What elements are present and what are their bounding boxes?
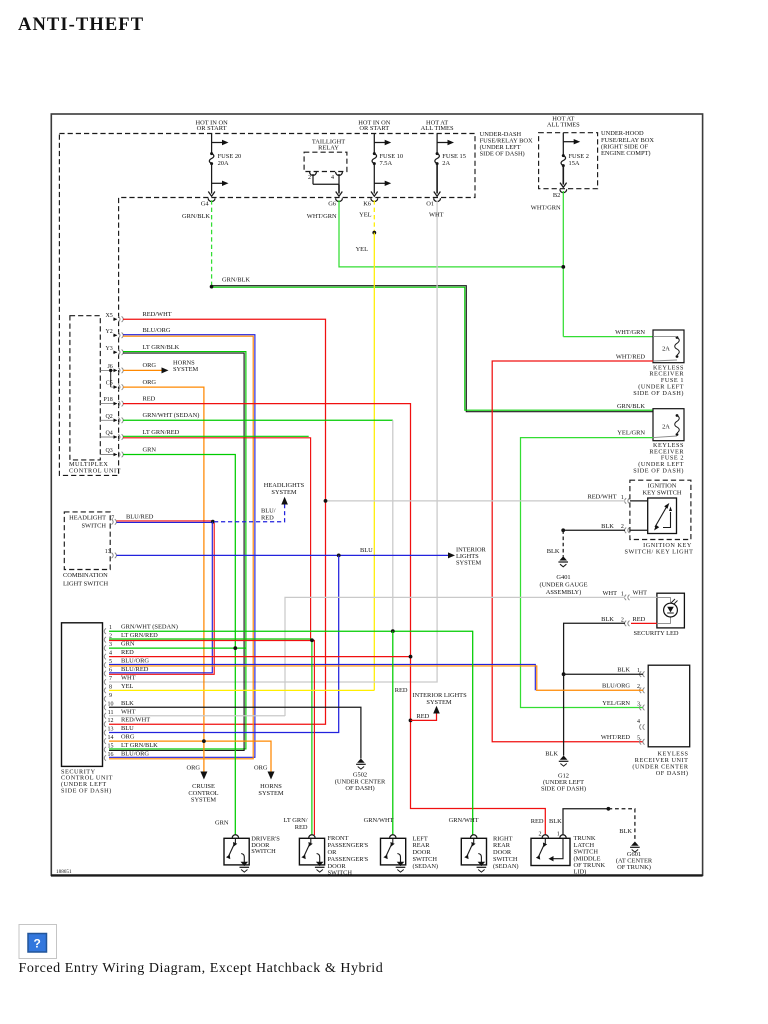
pin 13 (105, 549, 117, 558)
svg-text:?: ? (34, 937, 41, 951)
svg-text:BLU: BLU (121, 725, 134, 732)
svg-text:Q2: Q2 (105, 414, 112, 420)
svg-text:RED: RED (395, 687, 408, 694)
row labels (121, 624, 178, 758)
svg-text:LT GRN/RED: LT GRN/RED (143, 429, 180, 436)
thick bottom border (51, 874, 703, 876)
svg-text:WHT: WHT (121, 675, 136, 682)
svg-text:RED: RED (261, 515, 274, 522)
svg-text:SIDE OF DASH): SIDE OF DASH) (480, 151, 525, 158)
svg-text:SYSTEM: SYSTEM (258, 790, 284, 797)
node row2 junction (310, 638, 314, 642)
svg-text:BLU/RED: BLU/RED (126, 513, 154, 520)
svg-text:OR START: OR START (197, 125, 227, 132)
svg-text:1: 1 (621, 591, 624, 597)
svg-text:4: 4 (331, 175, 334, 181)
pin 1 LED (625, 595, 630, 601)
svg-text:3: 3 (637, 701, 640, 707)
svg-text:YEL/GRN: YEL/GRN (602, 700, 630, 707)
svg-text:GRN: GRN (143, 446, 157, 453)
ignition key switch (dashed box) (630, 480, 691, 539)
svg-text:OF DASH): OF DASH) (656, 770, 689, 777)
node row3 / Q3 junction (233, 646, 237, 650)
pin 2 ignition (625, 528, 630, 534)
svg-text:13: 13 (108, 727, 114, 733)
svg-text:WHT: WHT (602, 590, 617, 597)
svg-text:10: 10 (108, 701, 114, 707)
headlight switch (dashed box) (64, 512, 110, 570)
wire ORG from C5 to cruise control arrow (123, 387, 204, 772)
wire row 3 GRN (109, 647, 246, 649)
wire WHT/GRN from G6 (339, 200, 563, 267)
svg-text:LID): LID) (574, 869, 587, 876)
wire BLK from trunk latch pin 1 to G601 (563, 809, 608, 835)
wire WHT/RED from fuse 1 to keyless unit pin 5 (492, 361, 653, 742)
svg-text:WHT/RED: WHT/RED (616, 353, 645, 360)
node row4 / P18 junction (409, 655, 413, 659)
wire WHT/GRN from B2 (562, 191, 564, 337)
svg-text:7: 7 (109, 676, 112, 682)
svg-text:WHT: WHT (429, 212, 444, 219)
svg-text:(SEDAN): (SEDAN) (413, 863, 439, 870)
ignition switch symbol (655, 507, 667, 527)
svg-text:LT GRN/: LT GRN/ (284, 817, 308, 824)
wire RED from P18 down to trunk latch pin 2 (123, 404, 545, 835)
svg-text:(SEDAN): (SEDAN) (493, 863, 519, 870)
wire BLK from ignition pin 2 (563, 529, 625, 531)
svg-text:6: 6 (109, 668, 112, 674)
svg-text:9: 9 (109, 693, 112, 699)
svg-text:BLU/RED: BLU/RED (121, 666, 149, 673)
svg-text:RED/WHT: RED/WHT (587, 494, 616, 501)
pin 1 ignition (625, 498, 630, 504)
svg-text:BLU/ORG: BLU/ORG (602, 683, 630, 690)
wire GRN/WHT from Q2 (green then grey) (123, 419, 393, 421)
svg-text:7.5A: 7.5A (380, 160, 393, 167)
svg-text:OR START: OR START (359, 125, 389, 132)
wire LT GRN/RED pair from Q4 to front passenger door switch (123, 435, 309, 437)
svg-text:2: 2 (637, 684, 640, 690)
wire GRN/BLK pair to keyless fuse 2 (212, 286, 653, 412)
svg-text:ALL TIMES: ALL TIMES (421, 125, 454, 132)
help icon box (19, 925, 57, 959)
svg-text:12: 12 (108, 718, 114, 724)
svg-text:2: 2 (308, 175, 311, 181)
node row14 / C5 junction (202, 739, 206, 743)
ground G502 (356, 759, 366, 770)
driver's door switch (224, 835, 249, 872)
wire ORG from J6 to horns system arrow (123, 369, 162, 371)
svg-text:Forced Entry Wiring Diagram, E: Forced Entry Wiring Diagram, Except Hatc… (19, 961, 384, 976)
wire BLU from pin 13 to interior lights system (117, 554, 449, 556)
svg-text:GRN/BLK: GRN/BLK (617, 403, 645, 410)
wire LT GRN/BLK pair from Y3 to row 15 (109, 352, 246, 749)
wire BLU/RED pair down to row 6 (109, 522, 212, 673)
svg-text:YEL: YEL (121, 683, 134, 690)
svg-text:LT GRN/BLK: LT GRN/BLK (121, 742, 158, 749)
pin Q3 (100, 448, 123, 457)
wire RED spur to interior lights system (411, 713, 437, 720)
svg-text:WHT/GRN: WHT/GRN (307, 213, 337, 220)
node WHT/GRN junction (561, 265, 565, 269)
svg-text:2: 2 (621, 524, 624, 530)
svg-text:RELAY: RELAY (318, 145, 339, 152)
svg-text:SIDE OF DASH): SIDE OF DASH) (633, 468, 684, 475)
svg-text:BLK: BLK (601, 616, 614, 623)
pin 4 keyless unit (640, 724, 645, 730)
multiplex control unit (dashed box) (70, 316, 100, 460)
svg-text:SYSTEM: SYSTEM (173, 366, 199, 373)
svg-text:BLU/ORG: BLU/ORG (121, 751, 149, 758)
svg-text:YEL: YEL (356, 246, 369, 253)
svg-text:ASSEMBLY): ASSEMBLY) (546, 589, 582, 596)
svg-text:OF DASH): OF DASH) (345, 785, 374, 792)
svg-text:O1: O1 (426, 201, 434, 208)
svg-text:WHT: WHT (121, 708, 136, 715)
svg-text:(UNDER GAUGE: (UNDER GAUGE (539, 582, 587, 589)
node BLU junction (337, 554, 341, 558)
wire WHT from O1 down and left to row 7 (109, 200, 437, 682)
svg-text:ORG: ORG (143, 362, 157, 369)
svg-text:INTERIOR LIGHTS: INTERIOR LIGHTS (413, 692, 468, 699)
svg-text:SIDE OF DASH): SIDE OF DASH) (61, 788, 112, 795)
left rear door switch (381, 835, 406, 872)
svg-text:ALL TIMES: ALL TIMES (547, 122, 580, 129)
svg-text:C5: C5 (106, 381, 113, 387)
svg-text:IGNITION: IGNITION (648, 482, 677, 489)
row numbers (108, 625, 114, 758)
svg-text:RED/WHT: RED/WHT (121, 717, 150, 724)
wire RED/WHT (wht) from X5 riser to ignition pin 1 (326, 500, 626, 502)
pin Y2 (105, 329, 123, 338)
svg-text:SWITCH/ KEY LIGHT: SWITCH/ KEY LIGHT (625, 548, 694, 555)
svg-text:COMBINATION: COMBINATION (63, 572, 108, 579)
svg-text:BLK: BLK (601, 523, 614, 530)
node YEL junction (372, 231, 376, 235)
svg-text:SECURITY LED: SECURITY LED (633, 630, 678, 637)
svg-text:BLU/ORG: BLU/ORG (121, 658, 149, 665)
node G4 junction (210, 285, 214, 289)
wire GRN/WHT continuation below junction (392, 631, 394, 835)
keyless receiver fuse 1 (653, 330, 684, 363)
svg-text:4: 4 (109, 651, 112, 657)
svg-text:1: 1 (637, 668, 640, 674)
ground G12 (559, 756, 569, 767)
svg-text:BLK: BLK (545, 751, 558, 758)
svg-text:P18: P18 (103, 397, 112, 403)
wire row 14 ORG to horns system arrow (109, 741, 271, 772)
wire BLK from G12 riser to keyless pin 1 (564, 673, 643, 675)
outer diagram border (51, 114, 702, 875)
pin 7 (111, 515, 116, 524)
keyless receiver fuse 2 (653, 409, 684, 441)
svg-text:BLU: BLU (360, 547, 373, 554)
svg-text:SWITCH: SWITCH (82, 522, 107, 529)
svg-text:BLK: BLK (549, 818, 562, 825)
svg-text:2: 2 (621, 617, 624, 623)
pin X5 (105, 313, 123, 322)
wire GRN/BLK dashed from G4 (211, 200, 213, 286)
svg-text:SYSTEM: SYSTEM (426, 699, 452, 706)
under-hood fuse/relay box (dashed) (539, 133, 598, 189)
wire GRN from Q3 down to driver's door switch (123, 455, 235, 836)
front passenger's door switch (299, 835, 324, 872)
svg-text:GRN/BLK: GRN/BLK (182, 213, 210, 220)
svg-text:Y3: Y3 (105, 346, 112, 352)
pin P18 (100, 397, 123, 406)
svg-text:SIDE OF DASH): SIDE OF DASH) (633, 390, 684, 397)
svg-text:13: 13 (105, 549, 111, 555)
svg-text:OF TRUNK): OF TRUNK) (617, 864, 651, 871)
svg-text:KEY SWITCH: KEY SWITCH (643, 489, 682, 496)
wire RED stub into LED (631, 622, 657, 624)
pin C5 (106, 381, 124, 390)
svg-text:GRN: GRN (121, 641, 135, 648)
wire row 10 BLK to ground G502 (109, 707, 361, 758)
svg-text:ORG: ORG (187, 765, 201, 772)
node BLU/RED junction (211, 520, 215, 524)
svg-text:YEL: YEL (359, 212, 372, 219)
svg-text:RED/WHT: RED/WHT (143, 311, 172, 318)
svg-text:GRN/WHT: GRN/WHT (364, 817, 394, 824)
wire RED/WHT from X5 to row 12 (109, 319, 326, 724)
svg-text:Q3: Q3 (105, 448, 112, 454)
svg-text:SYSTEM: SYSTEM (271, 489, 297, 496)
link J6-C5 (110, 370, 112, 387)
svg-text:RED: RED (121, 649, 134, 656)
svg-text:RED: RED (295, 824, 308, 831)
wire YEL down to row 8 (373, 233, 375, 691)
svg-text:K6: K6 (363, 201, 371, 208)
svg-text:BLK: BLK (547, 548, 560, 555)
wire YEL from K6 (dashed then solid) (373, 200, 375, 232)
svg-text:ORG: ORG (254, 765, 268, 772)
svg-text:1: 1 (621, 495, 624, 501)
svg-text:BLU/ORG: BLU/ORG (143, 327, 171, 334)
svg-text:GRN/WHT (SEDAN): GRN/WHT (SEDAN) (143, 412, 200, 419)
svg-text:Y2: Y2 (105, 329, 112, 335)
wire YEL/GRN from fuse 2 to keyless unit pin 3 (521, 438, 654, 708)
wire WHT from row 11 riser to LED pin 1 (285, 597, 625, 716)
svg-text:G6: G6 (328, 201, 336, 208)
svg-text:GRN/WHT (SEDAN): GRN/WHT (SEDAN) (121, 624, 178, 631)
svg-text:ANTI-THEFT: ANTI-THEFT (18, 15, 144, 35)
svg-text:14: 14 (108, 735, 114, 741)
svg-text:BLU/: BLU/ (261, 508, 276, 515)
svg-text:RED: RED (633, 616, 646, 623)
wire BLU down to row 13 (109, 555, 339, 732)
ground G401 (558, 556, 568, 567)
wire row 11 WHT horizontal (109, 715, 285, 717)
svg-text:5: 5 (637, 736, 640, 742)
svg-text:5: 5 (109, 659, 112, 665)
pin 1 keyless unit (640, 671, 645, 677)
svg-text:LT GRN/BLK: LT GRN/BLK (143, 344, 180, 351)
wire BLU/RED dashed to headlights system (214, 504, 285, 522)
trunk latch switch (531, 835, 570, 866)
wire BLU/ORG pair from Y2 to row 16 (109, 335, 255, 758)
svg-text:HEADLIGHTS: HEADLIGHTS (264, 482, 305, 489)
svg-text:16: 16 (108, 752, 114, 758)
security control unit (62, 623, 103, 767)
pin 3 keyless unit (640, 705, 645, 711)
svg-text:2A: 2A (662, 424, 670, 431)
svg-text:20A: 20A (218, 160, 229, 167)
svg-text:WHT/RED: WHT/RED (601, 734, 630, 741)
svg-text:RED: RED (143, 396, 156, 403)
svg-text:G4: G4 (201, 201, 210, 208)
svg-text:Q4: Q4 (105, 430, 112, 436)
svg-text:11: 11 (108, 710, 114, 716)
svg-text:BLK: BLK (617, 667, 630, 674)
wire BLU/RED pair from headlight switch pin 7 (117, 520, 213, 522)
svg-text:188651: 188651 (56, 869, 72, 875)
svg-text:1: 1 (557, 832, 560, 838)
svg-text:ORG: ORG (121, 734, 135, 741)
svg-text:15: 15 (108, 744, 114, 750)
svg-text:2A: 2A (662, 345, 670, 352)
svg-text:SWITCH: SWITCH (251, 848, 276, 855)
svg-text:BLK: BLK (619, 828, 632, 835)
svg-text:RED: RED (417, 713, 430, 720)
fuse 20 feed wire (G4) (208, 134, 228, 202)
svg-text:7: 7 (111, 515, 114, 521)
svg-text:RED: RED (531, 818, 544, 825)
svg-text:4: 4 (637, 719, 640, 725)
svg-text:SIDE OF DASH): SIDE OF DASH) (541, 785, 586, 792)
node row1 / Q2 riser junction (391, 629, 395, 633)
svg-text:15A: 15A (569, 160, 580, 167)
wire row 4 RED to P18 riser (109, 656, 411, 658)
svg-text:GRN/WHT: GRN/WHT (449, 817, 479, 824)
svg-text:ORG: ORG (143, 379, 157, 386)
under-dash fuse/relay box (L-shaped dashed outline) (59, 134, 475, 476)
ground G601 (630, 842, 640, 853)
svg-text:SYSTEM: SYSTEM (456, 560, 482, 567)
svg-text:B2: B2 (553, 192, 560, 199)
svg-text:X5: X5 (105, 313, 112, 319)
node BLK junction keyless pin1 (562, 672, 566, 676)
pin Q2 (100, 414, 123, 423)
node P18 / interior lights junction (409, 719, 413, 723)
svg-text:YEL/GRN: YEL/GRN (617, 429, 645, 436)
svg-text:BLK: BLK (121, 700, 134, 707)
svg-text:1: 1 (109, 625, 112, 631)
pin Q4 (100, 430, 123, 439)
pin 5 keyless unit (640, 739, 645, 745)
svg-text:G502: G502 (353, 771, 367, 778)
svg-text:G401: G401 (556, 574, 570, 581)
svg-text:SYSTEM: SYSTEM (191, 797, 217, 804)
fuse 10 feed wire (K6) (371, 134, 391, 202)
wire BLK from LED pin 2 down to G12 (564, 623, 625, 755)
wire row 2 LT GRN/RED pair to Q4 riser (109, 639, 312, 835)
wire BLU/ORG row5 to keyless pin 2 (109, 664, 535, 690)
right rear door switch (461, 835, 486, 872)
svg-text:WHT/GRN: WHT/GRN (615, 329, 645, 336)
fuse 15 feed wire (O1) (434, 134, 454, 202)
security LED (657, 593, 685, 628)
wire row 8 YEL horizontal (109, 689, 374, 691)
svg-text:WHT/GRN: WHT/GRN (531, 204, 561, 211)
svg-text:GRN/BLK: GRN/BLK (222, 276, 250, 283)
svg-text:GRN: GRN (215, 819, 229, 826)
svg-text:ENGINE COMPT): ENGINE COMPT) (601, 150, 651, 157)
wire row 1 GRN/WHT to right rear door switch (109, 631, 473, 835)
wire BLK dashed to G401 (562, 530, 564, 556)
svg-text:3: 3 (109, 642, 112, 648)
pin Y3 (105, 346, 123, 355)
svg-text:LT GRN/RED: LT GRN/RED (121, 632, 158, 639)
fuse 2 feed wire (B2, under-hood) (560, 133, 580, 193)
svg-text:SWITCH: SWITCH (328, 870, 353, 877)
svg-text:CONTROL UNIT: CONTROL UNIT (69, 467, 121, 474)
svg-text:2A: 2A (442, 160, 450, 167)
keyless receiver unit (648, 665, 690, 747)
svg-text:8: 8 (109, 684, 112, 690)
row pin arcs (104, 628, 106, 760)
wire WHT/GRN to keyless fuse 1 (563, 336, 653, 338)
pin J6 (100, 364, 123, 373)
pin 2 keyless unit (640, 688, 645, 694)
svg-text:2: 2 (539, 832, 542, 838)
svg-text:WHT: WHT (633, 590, 648, 597)
svg-text:HEADLIGHT: HEADLIGHT (69, 514, 106, 521)
pin 2 LED (625, 621, 630, 627)
taillight relay (304, 139, 347, 202)
svg-text:LIGHT SWITCH: LIGHT SWITCH (63, 580, 109, 587)
